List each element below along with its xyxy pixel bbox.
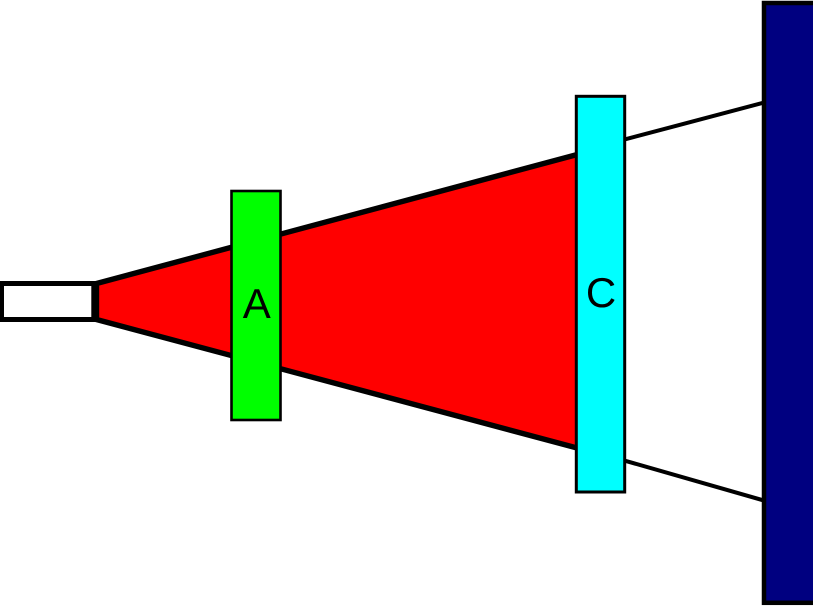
ray line bottom (aperture C to screen) — [620, 459, 768, 501]
screen (navy bar) — [764, 3, 813, 603]
aperture C (cyan bar) — [576, 96, 624, 492]
beam cone (red) — [97, 143, 623, 461]
ray line top (aperture C to screen) — [620, 102, 768, 141]
source slit (white box) — [2, 284, 94, 320]
svg-text:A: A — [243, 280, 271, 327]
svg-text:C: C — [586, 269, 616, 316]
aperture A (green bar) — [232, 191, 281, 420]
